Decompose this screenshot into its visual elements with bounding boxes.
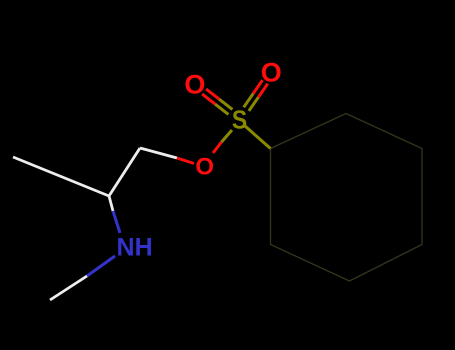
wire O3-S bond (red half) [213, 142, 222, 153]
wire N-M2 bond (white half) [50, 276, 87, 300]
wire S=O1 double bond line 1 [206, 89, 219, 99]
svg-text:O: O [261, 58, 282, 88]
svg-text:NH: NH [117, 234, 153, 262]
wire C2-O3 bond (red half) [177, 158, 194, 164]
wire S=O2 double bond line 1 [258, 84, 267, 98]
wire C1-C2 bond [109, 148, 140, 196]
svg-text:S: S [232, 106, 247, 134]
wire S-ring bond [245, 126, 271, 149]
wire S=O2 double bond line 2 [253, 80, 262, 94]
wire C1-N bond (blue half) [113, 211, 120, 233]
wire O3-S bond (olive half) [222, 130, 233, 142]
wire N-M2 bond (blue half) [87, 256, 115, 276]
wire C2-O3 bond (white half) [140, 148, 177, 158]
wire S=O1 double bond line 2 [202, 94, 215, 104]
wire C1-N bond (white half) [109, 196, 113, 211]
svg-text:O: O [195, 154, 214, 181]
svg-text:O: O [184, 69, 205, 99]
cyclohexane ring (dark) [271, 114, 423, 282]
wire C1-M1 methyl bond [13, 157, 109, 196]
